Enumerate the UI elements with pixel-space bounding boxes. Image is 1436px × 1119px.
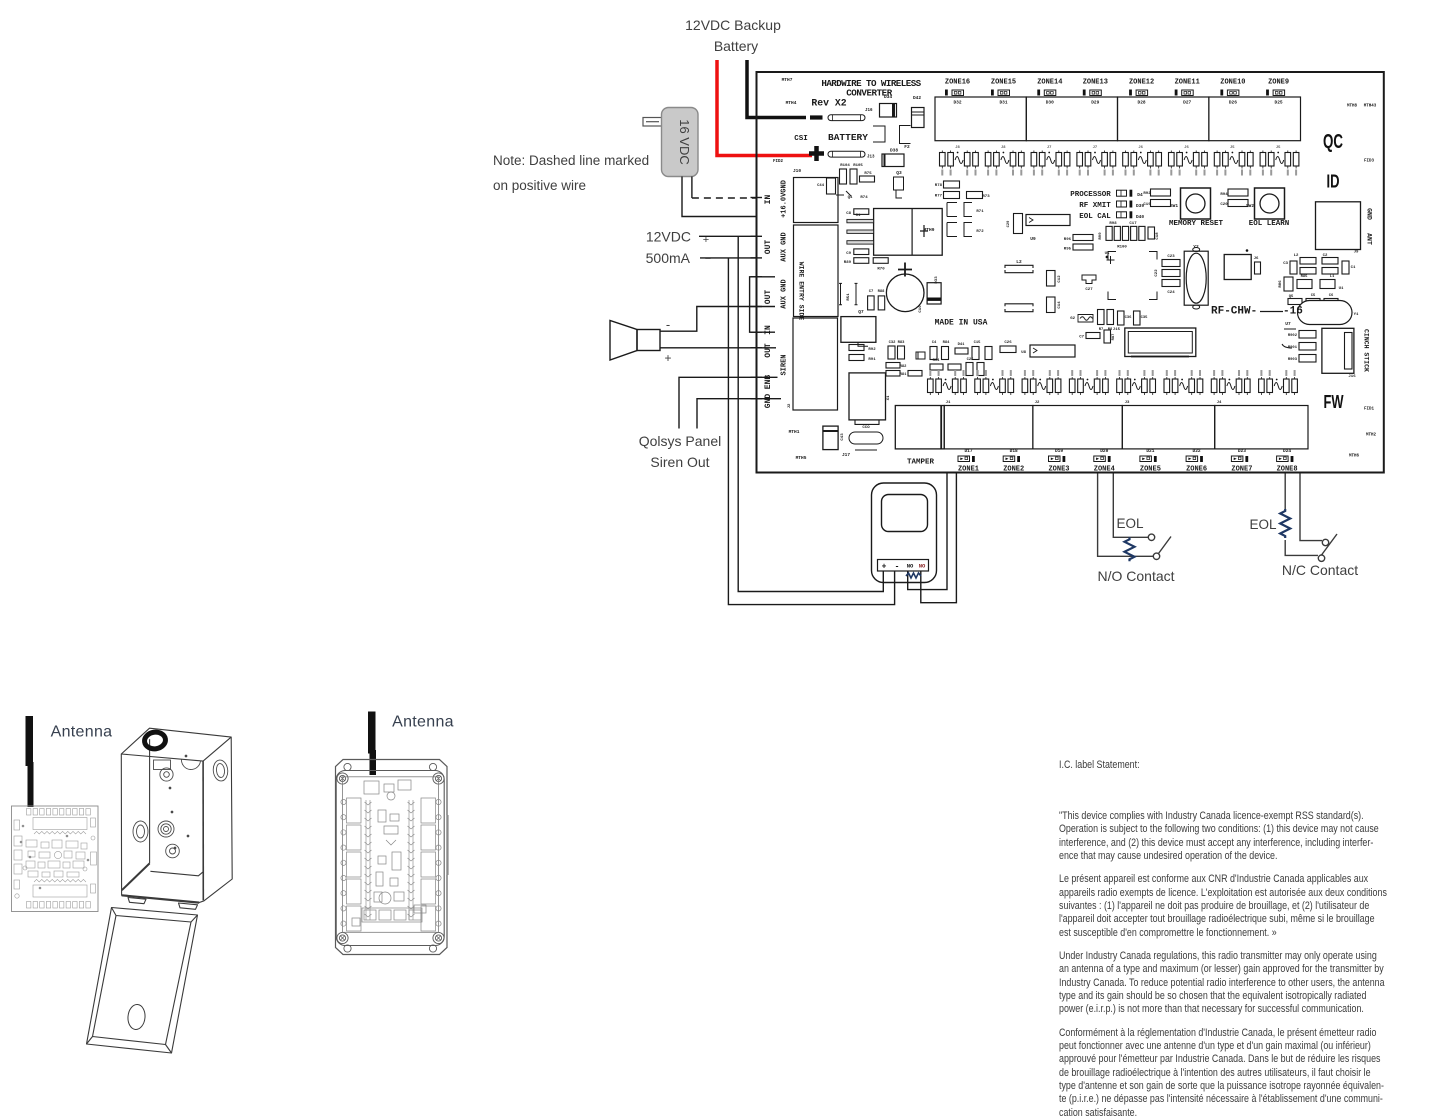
svg-text:J16: J16 [865, 109, 873, 113]
svg-text:C26: C26 [1004, 341, 1012, 345]
svg-text:-16: -16 [1283, 306, 1303, 318]
crystal Y1 pill [1298, 301, 1353, 325]
svg-text:J2: J2 [788, 403, 792, 408]
svg-text:MTH2: MTH2 [1366, 434, 1377, 438]
bottom resistor row tiny labels [929, 370, 1295, 376]
svg-text:Note: Dashed line marked: Note: Dashed line marked [493, 153, 649, 168]
I.C. label statement text block [1059, 759, 1436, 1119]
relay block [849, 373, 886, 420]
svg-text:ZONE1: ZONE1 [958, 466, 979, 474]
svg-text:−: − [705, 253, 711, 265]
svg-text:+16.0VGND: +16.0VGND [781, 180, 789, 218]
svg-text:MTH43: MTH43 [1364, 105, 1377, 109]
svg-text:MTH5: MTH5 [796, 455, 807, 461]
svg-text:ZONE5: ZONE5 [1140, 466, 1161, 474]
wire sensor NO to zone1 a [908, 473, 947, 590]
svg-text:NO: NO [907, 563, 914, 570]
PCB board outline [757, 72, 1384, 473]
transformer 16 VDC body [662, 108, 699, 177]
svg-text:D29: D29 [1091, 100, 1099, 106]
capacitor C29 and IC U9 [1014, 214, 1023, 234]
svg-text:D19: D19 [1055, 448, 1063, 454]
svg-text:U9: U9 [1030, 236, 1036, 242]
svg-text:GND: GND [1366, 208, 1373, 220]
svg-text:D40: D40 [1136, 214, 1144, 220]
svg-text:D38: D38 [890, 148, 898, 154]
pushbutton SW2 EOL LEARN [1255, 188, 1285, 219]
cinch stick connector J16 [1322, 328, 1354, 373]
switch N/O contact [1148, 534, 1154, 540]
diode D33 [927, 283, 941, 304]
svg-text:AUX GND: AUX GND [781, 279, 789, 308]
bottom zone diode labels D17-D24 [964, 448, 1291, 454]
svg-text:C32: C32 [889, 341, 897, 345]
sensor EOL resistor (blue) [906, 573, 921, 578]
left edge terminal stubs [751, 198, 763, 399]
svg-text:J15: J15 [1113, 328, 1121, 332]
svg-text:D4: D4 [1137, 192, 1143, 198]
small IC D5 [916, 352, 925, 359]
svg-text:J4: J4 [1217, 401, 1222, 405]
svg-text:C29: C29 [1007, 220, 1011, 228]
svg-text:C27: C27 [1085, 288, 1093, 292]
svg-text:R82: R82 [900, 365, 908, 369]
svg-text:EOL: EOL [1249, 517, 1277, 532]
IC Q7 block lower-left [841, 317, 876, 343]
svg-text:R73: R73 [982, 195, 990, 199]
svg-text:R92: R92 [1143, 192, 1151, 196]
svg-text:C43: C43 [841, 433, 845, 441]
svg-text:J10: J10 [793, 168, 801, 174]
resistor R92 lower [849, 345, 864, 351]
svg-text:D22: D22 [1193, 448, 1201, 454]
svg-text:Y2: Y2 [1193, 244, 1199, 250]
sensor device window [882, 495, 928, 532]
svg-text:ZONE7: ZONE7 [1231, 466, 1252, 474]
wire zone8 eol leg a [1284, 473, 1286, 510]
svg-text:D33: D33 [935, 276, 939, 284]
svg-text:MTH7: MTH7 [782, 77, 793, 83]
antenna rod right [368, 712, 376, 754]
svg-text:ENB: ENB [764, 375, 773, 390]
top zone connector blocks J5-J8 [935, 97, 1301, 141]
tamper connector block J1 [895, 406, 944, 449]
metal box back wall details [133, 755, 229, 858]
svg-text:GND: GND [764, 394, 773, 409]
svg-text:FW: FW [1324, 392, 1344, 412]
svg-text:12VDC: 12VDC [646, 229, 691, 245]
antenna rod left [26, 716, 34, 766]
svg-text:J6: J6 [1254, 257, 1259, 261]
svg-text:QC: QC [1323, 131, 1343, 153]
bottom zone connector blocks J1-J4 [944, 406, 1308, 449]
svg-text:D17: D17 [964, 448, 972, 454]
resistor EOL N/C (blue zigzag) [1280, 509, 1290, 538]
svg-text:U5: U5 [1105, 252, 1110, 256]
svg-text:FID1: FID1 [1364, 408, 1375, 412]
svg-text:Siren Out: Siren Out [650, 454, 709, 470]
svg-text:J13: J13 [867, 156, 875, 160]
svg-text:TAMPER: TAMPER [907, 459, 935, 467]
svg-text:R104: R104 [840, 164, 850, 168]
svg-text:Q3: Q3 [896, 170, 902, 176]
svg-text:ZONE3: ZONE3 [1048, 466, 1069, 474]
svg-text:C25: C25 [967, 358, 975, 362]
svg-text:C20: C20 [1220, 203, 1228, 207]
resistor R91 lower [849, 355, 864, 361]
svg-text:D26: D26 [1229, 100, 1237, 106]
diode D34 [880, 104, 897, 118]
svg-text:D30: D30 [1046, 100, 1054, 106]
svg-text:R89: R89 [844, 261, 852, 265]
svg-text:C17: C17 [1129, 222, 1137, 226]
svg-text:OUT: OUT [764, 290, 773, 305]
parts cluster C4 D41 C15 [930, 347, 937, 360]
svg-text:J5: J5 [1230, 146, 1235, 150]
battery plus terminal mark [809, 151, 824, 156]
wire aux+ down to sensor + terminal [738, 236, 883, 591]
svg-text:C15: C15 [974, 341, 982, 345]
svg-text:SW2: SW2 [1246, 203, 1254, 209]
electrolytic capacitor C15 [886, 274, 924, 312]
svg-text:ANT: ANT [1366, 233, 1373, 245]
bottom resistor row [928, 377, 1298, 395]
plastic enclosure outer shell [336, 760, 448, 955]
svg-text:FID3: FID3 [1364, 160, 1375, 164]
svg-text:J5: J5 [1276, 146, 1281, 150]
wire battery positive (red) [717, 60, 812, 156]
bare PCB drawing left [12, 806, 99, 912]
top resistor row tiny labels [941, 146, 1297, 176]
enclosure corner screws [337, 763, 444, 952]
svg-text:Y1: Y1 [1354, 313, 1359, 317]
wire battery negative (black) [747, 60, 806, 118]
svg-text:IN: IN [764, 195, 773, 205]
svg-text:ZONE4: ZONE4 [1094, 466, 1115, 474]
IC U2 corner brackets [1108, 252, 1116, 260]
crystal Y2 [1184, 251, 1208, 305]
svg-text:D21: D21 [1146, 448, 1154, 454]
svg-text:R87: R87 [1112, 333, 1116, 341]
svg-text:D41: D41 [958, 343, 966, 347]
svg-text:Rev X2: Rev X2 [811, 98, 846, 109]
svg-text:G2: G2 [1070, 317, 1075, 321]
svg-text:R94: R94 [933, 359, 941, 363]
wire siren gnd to qolsys panel [697, 399, 781, 429]
svg-text:R70: R70 [877, 268, 885, 272]
svg-text:OUT: OUT [764, 343, 773, 358]
svg-text:16 VDC: 16 VDC [677, 119, 692, 165]
wire speaker positive to siren out [660, 347, 776, 349]
svg-text:R74: R74 [860, 196, 868, 200]
svg-text:D27: D27 [1183, 100, 1191, 106]
svg-text:R86: R86 [1279, 280, 1283, 288]
bottom zone labels ZONE1-ZONE8 [958, 456, 1298, 474]
svg-text:MADE IN USA: MADE IN USA [935, 319, 988, 328]
connector J13 battery positive [828, 151, 865, 157]
svg-text:C5: C5 [1311, 294, 1316, 298]
bracket near battery [873, 126, 885, 142]
svg-text:EOL CAL: EOL CAL [1079, 213, 1111, 221]
svg-text:CCO: CCO [862, 426, 870, 430]
resistor R87 [1104, 330, 1111, 343]
transformer 16 VDC plug blades [643, 118, 662, 127]
IC J6 square [1224, 255, 1251, 280]
capacitor column C32 R83 [888, 346, 895, 359]
enclosure cover plate tilted [87, 908, 198, 1054]
capacitor pair R7 R8 [1098, 310, 1105, 325]
svg-text:PROCESSOR: PROCESSOR [1070, 191, 1111, 199]
wire zone4 eol leg b [1113, 473, 1148, 538]
bracket pair R72 [947, 223, 957, 237]
svg-text:C10: C10 [919, 305, 923, 313]
resistors R92 C19 right of processor leds [1151, 189, 1171, 196]
battery minus terminal mark [810, 115, 823, 119]
svg-text:Q4: Q4 [848, 196, 853, 200]
connector J16 battery negative [828, 115, 865, 121]
svg-text:D42: D42 [913, 95, 921, 101]
svg-text:R98: R98 [1109, 222, 1117, 226]
svg-text:D31: D31 [999, 100, 1007, 106]
svg-text:C35: C35 [1141, 316, 1149, 320]
svg-text:ZONE2: ZONE2 [1003, 466, 1024, 474]
svg-text:SW1: SW1 [1170, 203, 1178, 209]
wire zone8 eol leg b [1300, 473, 1322, 541]
parts cluster R94 C35 row2 [930, 364, 943, 370]
svg-text:ZONE12: ZONE12 [1129, 79, 1154, 87]
svg-text:ZONE15: ZONE15 [991, 79, 1016, 87]
sensor terminal strip + - NO NO [878, 560, 929, 572]
svg-text:MTH4: MTH4 [786, 100, 797, 106]
svg-text:MTH9: MTH9 [924, 227, 935, 233]
svg-text:ZONE6: ZONE6 [1186, 466, 1207, 474]
svg-text:FID2: FID2 [773, 160, 784, 164]
svg-text:RF-CHW-: RF-CHW- [1211, 306, 1257, 318]
svg-text:J2: J2 [1035, 401, 1040, 405]
svg-text:J8: J8 [1001, 146, 1006, 150]
fuse F2 bracket [900, 126, 911, 144]
svg-text:R71: R71 [976, 210, 984, 214]
wire speaker negative to siren in [660, 307, 775, 332]
connector J15 dual rect [1125, 328, 1196, 357]
svg-text:-: - [895, 563, 900, 572]
capacitor C14 [1047, 297, 1056, 313]
capacitor C27 symbol [1082, 275, 1096, 284]
antenna block J9 [1316, 202, 1361, 250]
svg-text:C19: C19 [1143, 203, 1151, 207]
svg-text:D20: D20 [1100, 448, 1108, 454]
svg-text:J1: J1 [946, 401, 951, 405]
svg-text:D28: D28 [1138, 100, 1146, 106]
resistor EOL N/O (blue zigzag) [1125, 537, 1135, 561]
capacitor pair C36 [1118, 311, 1125, 325]
svg-text:IN: IN [764, 325, 773, 335]
svg-text:C4: C4 [932, 341, 937, 345]
svg-text:L2: L2 [1294, 254, 1299, 258]
svg-text:C12: C12 [1058, 275, 1062, 283]
svg-text:X1: X1 [887, 395, 891, 400]
speaker symbol [610, 321, 637, 361]
svg-text:C7: C7 [869, 290, 874, 294]
svg-text:Antenna: Antenna [51, 724, 113, 741]
svg-text:+: + [664, 351, 671, 365]
svg-text:MEMORY RESET: MEMORY RESET [1169, 220, 1224, 228]
svg-text:SIREN: SIREN [781, 354, 789, 375]
svg-text:R83: R83 [898, 341, 906, 345]
svg-text:N/O Contact: N/O Contact [1097, 568, 1174, 584]
svg-text:R81: R81 [900, 373, 908, 377]
terminal block siren [793, 318, 838, 410]
wire 500mA aux gnd [700, 257, 757, 259]
top resistor row [940, 151, 1299, 169]
pushbutton SW1 MEMORY RESET [1181, 188, 1211, 219]
terminal block aux [794, 225, 839, 317]
capacitor C12 [1047, 271, 1056, 287]
svg-text:R84: R84 [943, 341, 951, 345]
svg-text:R94: R94 [1220, 193, 1228, 197]
svg-text:Antenna: Antenna [392, 714, 454, 731]
bracket pair R71 [947, 203, 957, 217]
svg-text:J6: J6 [1184, 146, 1189, 150]
svg-text:R91: R91 [868, 358, 876, 362]
svg-text:D32: D32 [953, 100, 961, 106]
svg-text:R75: R75 [864, 172, 872, 176]
terminal block J10 [794, 178, 839, 223]
IC U8 long [1030, 345, 1075, 357]
resistor R75 [860, 176, 875, 182]
svg-text:J8: J8 [955, 146, 960, 150]
capacitor pair C35 [1134, 311, 1141, 325]
svg-text:J17: J17 [842, 452, 850, 458]
metal enclosure box isometric [121, 728, 232, 909]
svg-text:R99: R99 [1099, 232, 1103, 240]
svg-text:R96: R96 [1064, 238, 1072, 242]
switch N/C contact [1322, 539, 1328, 545]
svg-text:C1: C1 [1351, 266, 1356, 270]
svg-text:500mA: 500mA [646, 250, 691, 266]
sensor device body [872, 483, 937, 583]
svg-text:R77: R77 [935, 195, 943, 199]
wire sensor NO to zone1 b [921, 473, 957, 603]
resistor cluster R82 R81 R80 [886, 363, 900, 369]
svg-text:OUT: OUT [764, 240, 773, 255]
wire aux-to-siren jumper bracket [750, 277, 775, 332]
svg-text:+: + [882, 563, 887, 572]
capacitor C44 [827, 178, 836, 194]
silkscreen PROCESSOR RF XMIT EOL CAL with LEDs [1070, 190, 1144, 221]
svg-text:ZONE8: ZONE8 [1277, 466, 1298, 474]
svg-text:C24: C24 [1167, 291, 1175, 295]
svg-text:C36: C36 [1125, 316, 1133, 320]
svg-text:L2: L2 [1016, 259, 1022, 265]
wire aux- down to sensor - terminal [728, 258, 894, 605]
regulator pins [847, 219, 874, 222]
svg-text:R51: R51 [847, 293, 851, 301]
svg-text:D18: D18 [1010, 448, 1018, 454]
svg-text:RF XMIT: RF XMIT [1079, 202, 1111, 210]
svg-text:D25: D25 [1275, 100, 1283, 106]
svg-text:Battery: Battery [714, 38, 758, 54]
capacitors C7 R88 small verticals [868, 296, 875, 310]
capacitor D42 [912, 108, 925, 128]
top zone diode labels D32-D25 [953, 100, 1283, 106]
svg-text:EOL: EOL [1116, 516, 1144, 531]
svg-text:-: - [666, 317, 670, 332]
svg-text:R7: R7 [1099, 328, 1104, 332]
svg-text:J7: J7 [1093, 146, 1098, 150]
svg-text:R903: R903 [1288, 358, 1298, 362]
svg-text:C44: C44 [817, 184, 825, 188]
svg-text:ZONE13: ZONE13 [1083, 79, 1108, 87]
svg-text:C23: C23 [1167, 255, 1175, 259]
svg-text:C7: C7 [1079, 336, 1084, 340]
svg-text:Q7: Q7 [858, 309, 864, 315]
svg-text:ZONE10: ZONE10 [1220, 79, 1245, 87]
svg-text:J3: J3 [1125, 401, 1130, 405]
svg-text:J16: J16 [1348, 375, 1356, 379]
svg-text:L1: L1 [1330, 275, 1335, 279]
svg-text:C6: C6 [1329, 294, 1334, 298]
svg-text:R92: R92 [868, 348, 876, 352]
svg-text:R88: R88 [878, 290, 886, 294]
svg-text:MTH1: MTH1 [789, 429, 800, 435]
svg-text:R95: R95 [1064, 248, 1072, 252]
wire 12VDC aux out [699, 235, 757, 237]
svg-text:R78: R78 [935, 184, 943, 188]
svg-text:R902: R902 [1288, 334, 1298, 338]
svg-text:ID: ID [1327, 172, 1340, 192]
top zone labels ZONE16-ZONE9 [945, 79, 1289, 96]
svg-text:U8: U8 [1021, 351, 1026, 355]
svg-text:WIRE ENTRY SIDE: WIRE ENTRY SIDE [798, 262, 805, 321]
metal box antenna hole (black ring) [143, 731, 166, 750]
svg-text:ZONE14: ZONE14 [1037, 79, 1062, 87]
wire siren enb to qolsys panel [679, 377, 778, 428]
svg-text:C3: C3 [1283, 262, 1288, 266]
svg-text:D34: D34 [884, 94, 892, 100]
svg-text:J6: J6 [1138, 146, 1143, 150]
svg-text:C8: C8 [846, 212, 851, 216]
svg-text:F2: F2 [904, 144, 910, 150]
svg-text:ZONE16: ZONE16 [945, 79, 970, 87]
svg-text:U1: U1 [1339, 287, 1344, 291]
wire zone8 eol leg a lower [1285, 540, 1318, 555]
inductor L3 bracket lower [1005, 304, 1033, 307]
svg-text:R72: R72 [976, 230, 984, 234]
enclosure inner PCB [341, 777, 441, 933]
regulator block with heatsink MTH9 [874, 209, 943, 256]
svg-text:CINCH STICK: CINCH STICK [1363, 329, 1370, 372]
svg-text:MTH8: MTH8 [1347, 105, 1358, 109]
svg-text:R901: R901 [1288, 346, 1298, 350]
svg-text:C9: C9 [846, 252, 851, 256]
resistor R70 [873, 258, 888, 264]
wire transformer positive dashed [691, 177, 693, 199]
wire transformer negative solid [682, 177, 757, 217]
wire zone4 eol leg a [1098, 473, 1154, 557]
svg-text:MTH6: MTH6 [1349, 455, 1360, 459]
svg-text:N/C Contact: N/C Contact [1282, 562, 1358, 578]
svg-text:U7: U7 [1285, 321, 1291, 327]
svg-text:EOL LEARN: EOL LEARN [1249, 220, 1290, 228]
svg-text:R85: R85 [1301, 275, 1309, 279]
svg-text:NO: NO [919, 563, 926, 570]
svg-text:C14: C14 [1058, 301, 1062, 309]
plastic enclosure inner lip [336, 771, 444, 946]
resistors R94 C20 [1228, 189, 1248, 196]
svg-text:D23: D23 [1238, 448, 1246, 454]
svg-text:D24: D24 [1283, 448, 1291, 454]
